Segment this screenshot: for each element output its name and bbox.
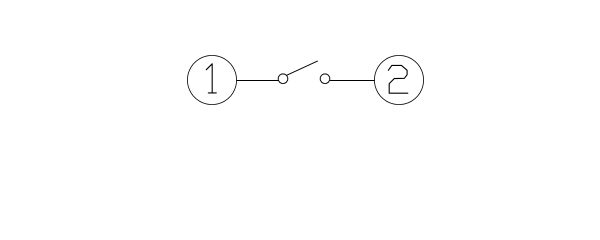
wire xyxy=(330,80,374,82)
switch left contact xyxy=(278,74,287,83)
switch arm xyxy=(287,61,318,75)
label 2 xyxy=(388,65,408,93)
terminal node 2 xyxy=(374,55,423,104)
switch right contact xyxy=(320,74,329,83)
label 1 xyxy=(206,64,216,93)
wire xyxy=(237,80,278,82)
terminal node 1 xyxy=(187,55,236,104)
